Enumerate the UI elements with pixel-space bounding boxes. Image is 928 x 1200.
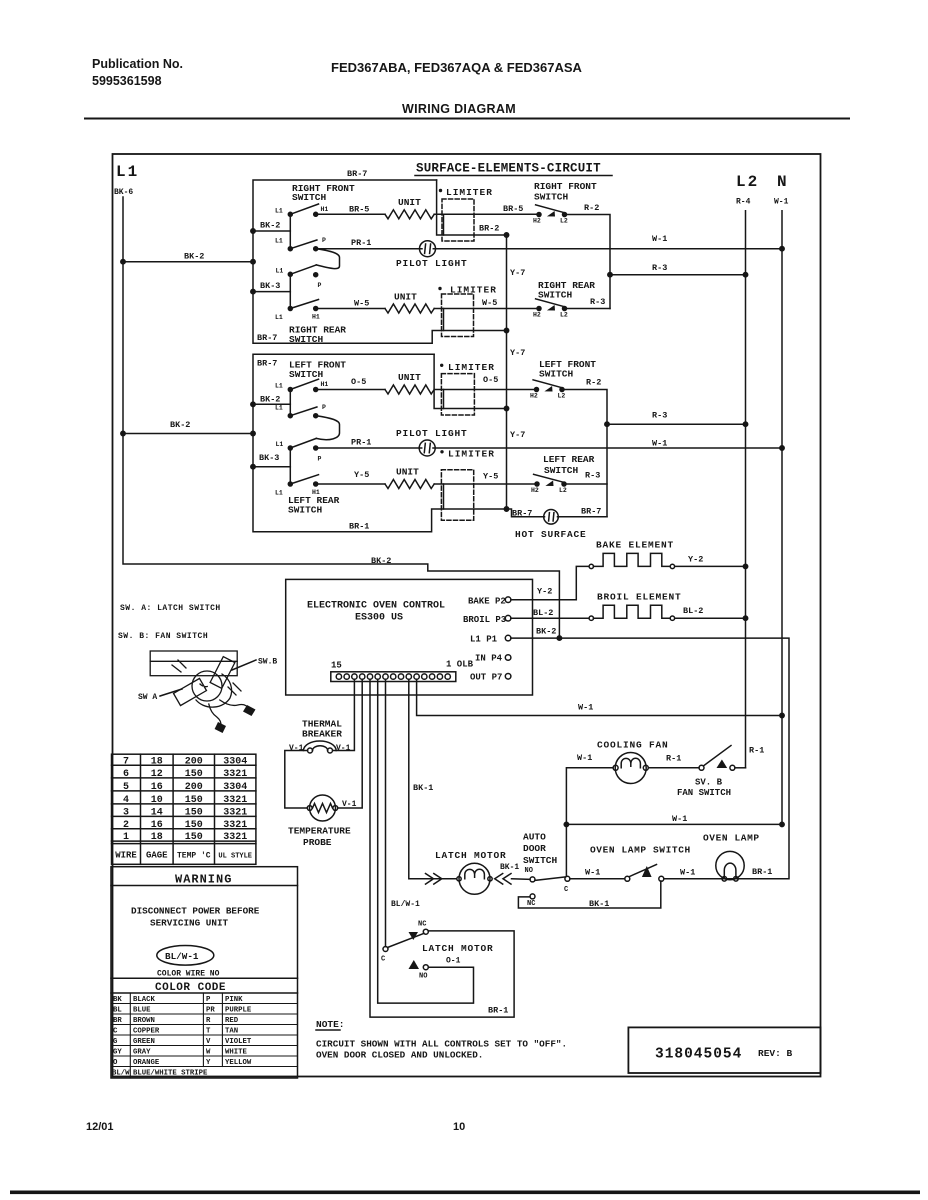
wire L2 out g2row1: [562, 390, 607, 517]
svg-text:3304: 3304: [223, 782, 247, 793]
wire g2row4 to switch: [434, 483, 537, 485]
svg-text:LIMITER: LIMITER: [450, 285, 497, 296]
svg-text:15: 15: [331, 661, 342, 671]
svg-text:5: 5: [123, 782, 129, 793]
warning text: [131, 906, 260, 929]
svg-text:L1: L1: [275, 490, 283, 497]
svg-text:150: 150: [185, 832, 203, 843]
svg-text:BK-2: BK-2: [371, 556, 391, 566]
svg-text:L2: L2: [558, 393, 566, 400]
svg-text:BL/W-1: BL/W-1: [165, 951, 199, 962]
svg-text:L1: L1: [275, 314, 283, 321]
pilot light 2: [419, 440, 435, 456]
svg-text:L1: L1: [275, 238, 283, 245]
svg-text:PILOT LIGHT: PILOT LIGHT: [396, 428, 468, 439]
node N label: [774, 173, 789, 207]
svg-text:RIGHT FRONT: RIGHT FRONT: [534, 181, 597, 192]
color code table grid: [111, 993, 298, 1078]
wire BL-2 to broil element: [511, 617, 589, 619]
svg-text:BR-1: BR-1: [752, 867, 772, 877]
svg-text:BL/W: BL/W: [112, 1070, 130, 1078]
wire BK-2 stub g2: [253, 403, 290, 405]
svg-text:TEMPERATURE: TEMPERATURE: [288, 826, 351, 837]
svg-text:PURPLE: PURPLE: [225, 1007, 252, 1015]
label right rear switch (left): [289, 325, 346, 346]
svg-text:BK-2: BK-2: [184, 252, 204, 262]
EOC output IN P4: [475, 654, 511, 664]
svg-text:V-1: V-1: [336, 744, 351, 753]
svg-text:SWITCH: SWITCH: [292, 192, 327, 203]
junction L1 group1 feed: [121, 260, 125, 264]
svg-text:L1: L1: [276, 441, 284, 448]
wire BK-3 stub g1: [253, 291, 290, 293]
wire N bus: [781, 211, 783, 825]
svg-text:3304: 3304: [223, 757, 247, 768]
wire BL-2 broil to L2: [675, 617, 745, 619]
surface-elements-circuit title: [416, 162, 601, 176]
svg-text:150: 150: [185, 807, 203, 818]
svg-text:V: V: [206, 1038, 211, 1046]
svg-text:SERVICING UNIT: SERVICING UNIT: [150, 918, 229, 929]
latch mechanism drawing: [150, 651, 255, 733]
svg-text:14: 14: [151, 807, 163, 818]
svg-text:WARNING: WARNING: [175, 873, 232, 887]
switch right front pole H1: [288, 212, 292, 216]
label right rear switch (right): [538, 280, 595, 301]
auto door switch S1: [530, 876, 570, 899]
svg-text:2: 2: [123, 820, 129, 831]
switch left rear (right side H2/L2): [534, 474, 566, 486]
warning box: [111, 867, 298, 1078]
EOC output OUT P7: [470, 673, 511, 683]
oven lamp switch S2: [625, 865, 664, 882]
svg-text:1 OLB: 1 OLB: [446, 660, 474, 670]
wire fan to fan switch: [648, 767, 699, 769]
wire R-3 g2 to L2 bus: [607, 423, 746, 425]
svg-text:GY: GY: [113, 1049, 122, 1057]
label left rear switch (left): [288, 495, 340, 516]
svg-text:SURFACE-ELEMENTS-CIRCUIT: SURFACE-ELEMENTS-CIRCUIT: [416, 162, 601, 176]
svg-text:COOLING FAN: COOLING FAN: [597, 740, 669, 751]
svg-text:BREAKER: BREAKER: [302, 729, 342, 740]
EOC connector strip: [331, 672, 456, 682]
svg-text:COLOR CODE: COLOR CODE: [155, 982, 226, 994]
oven lamp E1: [716, 851, 744, 881]
svg-text:6: 6: [123, 769, 129, 780]
wire pin5 BR-1 latch loop: [370, 679, 514, 1017]
svg-text:BR-7: BR-7: [257, 333, 277, 343]
svg-text:WIRE: WIRE: [115, 851, 137, 861]
svg-text:H2: H2: [530, 393, 538, 400]
wire pin3 to thermal breaker: [334, 679, 355, 750]
svg-text:NO: NO: [419, 973, 427, 981]
svg-text:7: 7: [123, 757, 129, 768]
switch right front (right side H2/L2): [536, 205, 567, 217]
svg-text:R: R: [206, 1017, 211, 1025]
svg-text:150: 150: [185, 795, 203, 806]
svg-text:W-1: W-1: [578, 703, 593, 713]
svg-text:1: 1: [123, 832, 129, 843]
svg-text:WHITE: WHITE: [225, 1049, 248, 1057]
wire hot surface to right: [558, 516, 608, 518]
svg-text:BK-3: BK-3: [260, 281, 280, 291]
svg-text:NO: NO: [525, 867, 533, 875]
wire PR-1 row2: [316, 248, 422, 250]
label left front switch (right): [539, 359, 596, 380]
node L2 label: [736, 173, 759, 207]
label NOTE: [316, 1019, 345, 1030]
wire pin6 latch NO loop: [378, 679, 474, 1003]
svg-text:Y-7: Y-7: [510, 430, 525, 440]
switch pole P g2row3: [288, 446, 292, 450]
svg-text:W-1: W-1: [652, 234, 667, 244]
label left rear switch (right): [543, 454, 595, 476]
svg-text:200: 200: [185, 757, 203, 768]
svg-text:T: T: [206, 1028, 211, 1036]
wire door C to lamp switch: [570, 878, 625, 880]
svg-text:12/01: 12/01: [86, 1121, 114, 1133]
svg-text:FAN SWITCH: FAN SWITCH: [677, 788, 731, 798]
svg-text:DISCONNECT POWER BEFORE: DISCONNECT POWER BEFORE: [131, 906, 260, 917]
svg-text:BK-1: BK-1: [413, 783, 433, 793]
svg-text:SW.B: SW.B: [258, 658, 277, 667]
svg-text:BLACK: BLACK: [133, 996, 156, 1004]
svg-text:L2: L2: [736, 173, 759, 191]
wire pin7 BL/W-1 to latch switch C: [385, 679, 387, 946]
cooling fan motor B1: [613, 753, 648, 784]
svg-text:P: P: [318, 282, 322, 289]
svg-text:W-1: W-1: [680, 868, 695, 878]
limiter 4: [440, 449, 495, 521]
pilot light 1: [420, 241, 436, 257]
svg-text:3: 3: [123, 807, 129, 818]
temperature probe RT1: [307, 795, 337, 821]
svg-text:C: C: [113, 1028, 118, 1036]
color code table text: [112, 996, 252, 1078]
wire fan switch to L2 bus: [735, 767, 746, 769]
diagram border frame: [113, 154, 821, 1077]
svg-text:R-2: R-2: [586, 378, 601, 388]
svg-text:OVEN LAMP SWITCH: OVEN LAMP SWITCH: [590, 845, 691, 856]
svg-text:PR-1: PR-1: [351, 438, 371, 448]
note text: [316, 1039, 567, 1061]
wire L1 link g2 r3-r4: [289, 448, 291, 484]
svg-text:UNIT: UNIT: [398, 372, 421, 383]
svg-text:L1: L1: [275, 383, 283, 390]
svg-text:OVEN LAMP: OVEN LAMP: [703, 833, 760, 844]
EOC output BAKE P2: [468, 597, 511, 607]
wire BK-2 group1 feed: [123, 261, 253, 263]
wire pin10 BK-1 to latch motor: [409, 679, 457, 879]
svg-text:BK: BK: [113, 996, 122, 1004]
svg-text:UNIT: UNIT: [396, 467, 419, 478]
svg-text:R-4: R-4: [736, 198, 751, 207]
wire BK-2 group2 feed: [123, 433, 253, 435]
svg-text:N: N: [777, 173, 787, 191]
svg-text:H2: H2: [531, 487, 539, 494]
thermal breaker TB1: [304, 741, 337, 753]
svg-text:COLOR WIRE NO: COLOR WIRE NO: [157, 970, 220, 979]
group1 switch box outline (BR-7 net): [253, 180, 507, 343]
svg-text:V-1: V-1: [342, 800, 357, 809]
svg-text:BK-1: BK-1: [589, 899, 609, 909]
wire pin11 W-1 to N bus: [417, 679, 782, 715]
group2 switch box outline (BR-7/BR-1 net): [253, 354, 507, 531]
wire number ellipse: [157, 946, 214, 966]
svg-text:10: 10: [151, 795, 163, 806]
hot surface indicator light: [544, 510, 559, 525]
wire lamp switch to lamp: [664, 878, 739, 880]
svg-text:SWITCH: SWITCH: [544, 465, 579, 476]
svg-text:G: G: [113, 1038, 118, 1046]
svg-text:R-3: R-3: [652, 263, 667, 273]
svg-text:R-2: R-2: [584, 203, 599, 213]
wire row4 to switch: [434, 308, 536, 310]
svg-text:BR-7: BR-7: [581, 507, 601, 517]
svg-text:L1: L1: [276, 268, 284, 275]
svg-text:H2: H2: [533, 218, 541, 225]
svg-text:R-3: R-3: [590, 297, 605, 307]
junction limiter2 tap: [504, 328, 508, 332]
svg-text:SWITCH: SWITCH: [289, 334, 324, 345]
svg-text:Publication No.: Publication No.: [92, 57, 183, 71]
svg-text:BL-2: BL-2: [683, 606, 703, 616]
svg-text:O-1: O-1: [446, 957, 461, 966]
svg-text:L1 P1: L1 P1: [470, 635, 498, 645]
svg-text:18: 18: [151, 757, 163, 768]
svg-text:AUTO: AUTO: [523, 832, 546, 843]
svg-text:L1: L1: [116, 163, 139, 181]
svg-text:R-1: R-1: [749, 746, 764, 756]
switch left front pole H1: [288, 388, 292, 392]
junction R-3 g1: [608, 273, 612, 277]
wire Y-2 bake to L2: [675, 565, 745, 567]
svg-text:BL: BL: [113, 1007, 122, 1015]
svg-text:18: 18: [151, 832, 163, 843]
svg-text:P: P: [322, 237, 326, 244]
resistor unit left front: [385, 385, 434, 394]
svg-text:318045054: 318045054: [655, 1047, 742, 1063]
latch motor M1: [457, 863, 492, 894]
wire R-3 g1 to L2 bus: [610, 274, 746, 276]
svg-text:150: 150: [185, 820, 203, 831]
wire PR-1 g2row3: [316, 447, 422, 449]
svg-text:P: P: [318, 456, 322, 463]
wire pin4 to temp probe: [338, 679, 362, 808]
svg-text:LIMITER: LIMITER: [448, 362, 495, 373]
svg-text:V-1: V-1: [289, 744, 304, 753]
svg-text:SWITCH: SWITCH: [523, 855, 558, 866]
svg-text:BR-1: BR-1: [488, 1006, 508, 1016]
svg-text:200: 200: [185, 782, 203, 793]
wire BR-7 drop to limiter3 tap: [434, 354, 506, 408]
wire fan left riser: [566, 768, 613, 877]
svg-text:SW A: SW A: [138, 693, 157, 702]
switch pole P row2: [288, 247, 292, 251]
wire hot surface row: [507, 509, 545, 517]
svg-text:BR-5: BR-5: [503, 204, 523, 214]
wire L1 link r3-r4: [289, 274, 291, 308]
svg-text:R-1: R-1: [666, 754, 681, 764]
svg-text:L1: L1: [275, 208, 283, 215]
wire Y-7 vertical: [506, 235, 508, 509]
label SW.B pointer: [232, 658, 277, 671]
limiter 1: [439, 187, 493, 241]
svg-text:LIMITER: LIMITER: [448, 449, 495, 460]
svg-text:L2: L2: [559, 487, 567, 494]
limiter 3: [440, 362, 495, 415]
svg-text:16: 16: [151, 820, 163, 831]
svg-text:BK-3: BK-3: [259, 453, 279, 463]
svg-text:PINK: PINK: [225, 996, 243, 1004]
svg-text:SWITCH: SWITCH: [288, 505, 323, 516]
svg-text:C: C: [564, 886, 568, 894]
svg-text:P: P: [206, 996, 211, 1004]
svg-text:12: 12: [151, 769, 163, 780]
junction limiter3 tap: [504, 406, 508, 410]
svg-text:H2: H2: [533, 312, 541, 319]
svg-text:LIMITER: LIMITER: [446, 187, 493, 198]
limiter 2: [438, 285, 497, 337]
svg-text:SWITCH: SWITCH: [534, 192, 569, 203]
svg-text:H1: H1: [312, 314, 320, 321]
svg-text:4: 4: [123, 795, 129, 806]
svg-text:NC: NC: [527, 900, 535, 908]
svg-text:BAKE ELEMENT: BAKE ELEMENT: [596, 540, 674, 551]
svg-text:PR: PR: [206, 1007, 215, 1015]
switch pole P row3: [288, 272, 292, 276]
svg-text:RED: RED: [225, 1017, 239, 1025]
svg-text:BK-6: BK-6: [114, 188, 133, 197]
junction Y-7 top node: [504, 233, 508, 237]
svg-text:SWITCH: SWITCH: [539, 369, 574, 380]
wire motor to door switch NO: [512, 878, 531, 881]
wire L2 out g2row4: [564, 483, 607, 485]
svg-text:BR-7: BR-7: [512, 509, 532, 519]
svg-text:Y-5: Y-5: [354, 470, 369, 480]
svg-text:TAN: TAN: [225, 1028, 238, 1036]
svg-text:SW. A: LATCH SWITCH: SW. A: LATCH SWITCH: [120, 604, 221, 613]
latch cam switch S3: [383, 929, 428, 970]
svg-text:LATCH MOTOR: LATCH MOTOR: [435, 850, 507, 861]
svg-text:REV: B: REV: B: [758, 1048, 793, 1059]
title underline: [415, 175, 612, 177]
wire L2 out row1: [565, 215, 611, 309]
label electronic oven control: [307, 601, 445, 624]
connector chevrons right: [495, 874, 511, 885]
wire BK-3 stub g2: [253, 466, 290, 468]
svg-text:BROIL ELEMENT: BROIL ELEMENT: [597, 592, 682, 603]
svg-text:BROWN: BROWN: [133, 1017, 155, 1025]
svg-text:BR-1: BR-1: [349, 522, 369, 532]
junction R-3 g2: [605, 422, 609, 426]
svg-text:O-5: O-5: [351, 377, 366, 387]
svg-text:C: C: [381, 956, 385, 964]
svg-text:BLUE: BLUE: [133, 1007, 151, 1015]
svg-text:LATCH MOTOR: LATCH MOTOR: [422, 943, 494, 954]
wire L1 link g2 r1-r2: [289, 390, 291, 416]
junction L1 group2 feed: [121, 431, 125, 435]
wire W-1 pilot1 to N: [433, 248, 782, 250]
svg-text:BL/W-1: BL/W-1: [391, 900, 420, 909]
wire gauge table: [112, 754, 256, 864]
svg-text:NC: NC: [418, 921, 426, 929]
svg-text:W: W: [206, 1049, 211, 1057]
wire L1 bus: [123, 197, 559, 638]
svg-text:W-1: W-1: [672, 814, 687, 824]
svg-text:W-1: W-1: [577, 753, 592, 763]
svg-text:PR-1: PR-1: [351, 238, 371, 248]
svg-text:BK-2: BK-2: [170, 420, 190, 430]
svg-text:ES300 US: ES300 US: [355, 613, 403, 624]
svg-text:BR-7: BR-7: [257, 359, 277, 369]
wire BR-5 unit row1: [316, 213, 385, 215]
wire L2 bus: [745, 211, 747, 768]
svg-text:3321: 3321: [223, 820, 247, 831]
svg-text:LEFT REAR: LEFT REAR: [543, 454, 595, 465]
label left front switch (left): [289, 360, 346, 381]
switch pole P g2row2: [288, 414, 292, 418]
svg-text:3321: 3321: [223, 795, 247, 806]
svg-text:NOTE:: NOTE:: [316, 1019, 345, 1030]
wire W-1 lamp row to N: [566, 823, 782, 825]
svg-text:W-5: W-5: [354, 299, 369, 309]
label auto door switch: [523, 832, 558, 867]
svg-text:W-1: W-1: [774, 198, 789, 207]
svg-text:PILOT LIGHT: PILOT LIGHT: [396, 258, 468, 269]
publication number text: [92, 57, 183, 88]
svg-text:GREEN: GREEN: [133, 1038, 155, 1046]
svg-text:ELECTRONIC OVEN CONTROL: ELECTRONIC OVEN CONTROL: [307, 601, 445, 612]
switch right rear pole H1: [288, 307, 292, 311]
wire W-5 unit row4: [316, 308, 385, 310]
wire Y-5 unit row: [316, 483, 385, 485]
svg-text:FED367ABA, FED367AQA & FED367A: FED367ABA, FED367AQA & FED367ASA: [331, 60, 583, 75]
svg-text:BK-2: BK-2: [536, 627, 556, 637]
bake element: [589, 553, 675, 568]
svg-text:Y-7: Y-7: [510, 268, 525, 278]
resistor unit left rear: [385, 480, 434, 489]
svg-text:Y-2: Y-2: [688, 555, 703, 565]
svg-text:L2: L2: [560, 218, 568, 225]
fan switch SW B: [699, 746, 735, 771]
svg-text:BROIL P3: BROIL P3: [463, 615, 506, 625]
svg-text:W-5: W-5: [482, 298, 497, 308]
svg-text:IN P4: IN P4: [475, 654, 503, 664]
svg-text:PROBE: PROBE: [303, 837, 332, 848]
wire L2 out row4: [565, 308, 611, 310]
footer bar: [10, 1191, 920, 1195]
wire row1 to switch: [434, 213, 536, 215]
svg-text:UL STYLE: UL STYLE: [218, 853, 252, 861]
svg-text:UNIT: UNIT: [394, 292, 417, 303]
resistor unit right front: [385, 210, 434, 219]
wire BK-2 stub g1: [253, 230, 290, 232]
svg-text:3321: 3321: [223, 832, 247, 843]
svg-text:BK-1: BK-1: [500, 863, 519, 872]
svg-text:VIOLET: VIOLET: [225, 1038, 252, 1046]
svg-text:BK-2: BK-2: [260, 221, 280, 231]
junction W-1 fan riser: [564, 822, 568, 826]
EOC output L1 P1: [470, 635, 511, 645]
svg-text:O-5: O-5: [483, 375, 498, 385]
svg-text:CIRCUIT SHOWN WITH ALL CONTROL: CIRCUIT SHOWN WITH ALL CONTROLS SET TO "…: [316, 1039, 567, 1050]
wire P-P curve g2: [316, 416, 339, 440]
wire g2row1 to switch: [434, 389, 536, 391]
svg-text:H1: H1: [321, 206, 329, 213]
wire P-P curve g1: [316, 249, 339, 269]
wire O-5 unit row: [316, 389, 385, 391]
